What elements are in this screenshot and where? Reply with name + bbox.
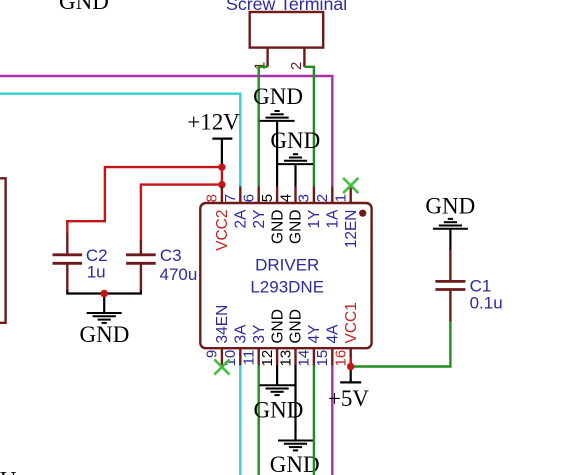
junction dot B (+12V / C3 branch) xyxy=(218,181,225,188)
label 470u xyxy=(160,265,198,284)
power +12V label xyxy=(187,109,240,134)
pin name 12EN (pin 1) xyxy=(343,210,360,249)
svg-text:GND: GND xyxy=(270,452,320,475)
pin name GND (pin 5) xyxy=(269,210,286,244)
pin name 1A (pin 2) xyxy=(325,209,342,229)
junction dot C (ground bus) xyxy=(100,290,108,298)
capacitor C3 top lead xyxy=(140,240,142,254)
wire cyan from pin 10 xyxy=(239,365,241,475)
capacitor C1 bottom lead xyxy=(449,291,451,322)
svg-text:12EN: 12EN xyxy=(343,210,360,249)
pin number 15 xyxy=(314,350,331,367)
pin name 34EN (pin 9) xyxy=(214,305,231,344)
connector J1 (partially off-screen left) xyxy=(0,178,6,322)
pin number 5 xyxy=(259,194,276,202)
pin name 3A (pin 10) xyxy=(233,324,250,344)
svg-text:2A: 2A xyxy=(233,209,250,229)
pin 13 of U1 xyxy=(294,347,296,366)
svg-text:7: 7 xyxy=(222,194,239,202)
svg-text:3A: 3A xyxy=(233,324,250,344)
capacitor C2 plates xyxy=(53,255,83,263)
svg-text:1Y: 1Y xyxy=(306,210,323,229)
power +5V stub xyxy=(350,367,352,383)
wire red pin 16 to junction xyxy=(350,358,352,367)
wire green from pin 11 xyxy=(258,365,260,475)
pin number 3 xyxy=(296,194,313,202)
svg-text:12: 12 xyxy=(259,350,276,367)
pin name 1Y (pin 3) xyxy=(306,210,323,229)
svg-text:2: 2 xyxy=(314,194,331,202)
pin number 12 xyxy=(259,350,276,367)
label L293DNE xyxy=(250,277,324,296)
pin number 11 xyxy=(241,350,258,366)
pin number 16 xyxy=(333,350,350,367)
svg-text:16: 16 xyxy=(333,350,350,367)
ground symbol (pin 4) xyxy=(278,154,313,164)
wire GND to pin 4 xyxy=(294,165,296,187)
junction dot A (+12V / C2 branch) xyxy=(218,163,225,170)
svg-text:4: 4 xyxy=(277,194,294,202)
ground symbol (pin 12) xyxy=(260,385,295,395)
pin 5 of U1 xyxy=(276,186,278,204)
svg-text:1u: 1u xyxy=(87,263,106,282)
capacitor C3 bottom lead xyxy=(140,265,142,292)
pin 3 of U1 xyxy=(313,186,315,204)
label C2 xyxy=(86,246,108,265)
svg-text:C3: C3 xyxy=(160,246,182,265)
pin 14 of U1 xyxy=(313,347,315,366)
svg-text:2: 2 xyxy=(288,62,305,70)
wire black GND to C1 xyxy=(449,230,451,251)
power +12V symbol bar xyxy=(212,138,232,140)
pin name GND (pin 13) xyxy=(288,309,305,343)
svg-text:34EN: 34EN xyxy=(214,305,231,344)
wire black C2-C3 ground bus xyxy=(67,291,141,294)
svg-text:0.1u: 0.1u xyxy=(470,293,503,312)
pin 2 of U1 xyxy=(331,186,333,204)
op-amp driver IC U1 body xyxy=(200,203,371,348)
pin 1 of screw terminal xyxy=(266,48,268,67)
ground GND label (pin 5) xyxy=(253,84,303,109)
wire cyan net to pin 7 (2A) xyxy=(0,94,240,187)
pin 10 of U1 xyxy=(239,347,241,366)
wire black pin 13 to ground xyxy=(294,365,296,440)
pin name 3Y (pin 11) xyxy=(251,325,268,344)
svg-text:9: 9 xyxy=(204,350,221,358)
ground symbol (left) xyxy=(87,313,122,323)
svg-text:11: 11 xyxy=(241,350,258,366)
svg-text:VCC2: VCC2 xyxy=(214,210,231,251)
ground GND label (left) xyxy=(79,322,129,347)
svg-text:4Y: 4Y xyxy=(306,325,323,344)
svg-text:3: 3 xyxy=(296,194,313,202)
pin number 1 xyxy=(333,194,350,202)
wire red branch to C2 xyxy=(67,167,222,234)
pin name VCC1 (pin 16) xyxy=(343,302,360,343)
no-connect X on pin 1 xyxy=(343,178,358,193)
ground GND label (right) xyxy=(425,194,475,219)
svg-text:GND: GND xyxy=(253,84,303,109)
label C1 xyxy=(470,276,492,295)
pin 11 of U1 xyxy=(258,347,260,366)
screw terminal X1 label xyxy=(226,0,347,14)
svg-text:15: 15 xyxy=(314,350,331,367)
pin name GND (pin 12) xyxy=(269,309,286,343)
pin 2 of screw terminal xyxy=(303,48,305,67)
label U (cut off at bottom edge) xyxy=(0,467,17,475)
svg-text:GND: GND xyxy=(425,194,475,219)
pin name VCC2 (pin 8) xyxy=(214,210,231,251)
wire magenta net to pin 2 (1A) xyxy=(0,76,332,187)
pin number 10 xyxy=(222,350,239,367)
svg-text:14: 14 xyxy=(296,350,313,367)
wire green screw pin2 to IC pin 3 xyxy=(304,67,314,187)
svg-text:2Y: 2Y xyxy=(251,210,268,229)
pin name 2A (pin 7) xyxy=(233,209,250,229)
power +5V symbol bar xyxy=(340,381,361,383)
pin name 4A (pin 15) xyxy=(325,324,342,344)
wire +12V stub xyxy=(221,139,223,168)
pin number 2 (screw terminal) xyxy=(288,62,305,70)
capacitor C2 bottom lead xyxy=(66,265,68,292)
pin number 14 xyxy=(296,350,313,367)
svg-text:GND: GND xyxy=(288,210,305,244)
svg-text:6: 6 xyxy=(241,194,258,202)
wire green pin16 to C1 xyxy=(351,320,451,366)
svg-text:4A: 4A xyxy=(325,324,342,344)
svg-text:3Y: 3Y xyxy=(251,325,268,344)
label C3 xyxy=(160,246,182,265)
pin 8 of U1 xyxy=(221,186,223,204)
pin number 1 (screw terminal) xyxy=(251,62,268,70)
svg-text:1: 1 xyxy=(333,194,350,202)
svg-text:8: 8 xyxy=(204,194,221,202)
capacitor C3 plates xyxy=(126,255,156,263)
wire black to left ground xyxy=(103,294,105,314)
ground symbol (right) xyxy=(433,219,468,229)
ground GND label (pin 13) xyxy=(270,452,320,475)
pin 9 of U1 xyxy=(221,347,223,366)
pin name 4Y (pin 14) xyxy=(306,325,323,344)
wire magenta from pin 15 xyxy=(331,365,333,475)
capacitor C1 plates xyxy=(435,281,465,289)
junction dot D (pin 16 / +5V) xyxy=(347,363,354,370)
svg-text:GND: GND xyxy=(270,128,320,153)
pin number 4 xyxy=(277,194,294,202)
pin 1 of U1 xyxy=(350,186,352,204)
wire GND to pin 5 xyxy=(276,122,278,187)
capacitor C2 top lead xyxy=(66,233,68,254)
pin name 2Y (pin 6) xyxy=(251,210,268,229)
svg-text:VCC1: VCC1 xyxy=(343,302,360,343)
IC origin dot xyxy=(359,210,366,217)
ground GND label (pin 12) xyxy=(253,397,303,422)
pin 4 of U1 xyxy=(294,186,296,204)
ground GND (top-left, cut off) xyxy=(59,0,109,14)
ground symbol (pin 5) xyxy=(260,111,295,121)
wire green screw pin1 to IC pin 6 xyxy=(259,67,268,187)
pin number 2 xyxy=(314,194,331,202)
pin 16 of U1 xyxy=(350,347,352,366)
svg-text:+12V: +12V xyxy=(187,109,240,134)
power +5V label xyxy=(328,386,369,411)
wire green from pin 14 xyxy=(313,365,315,475)
pin number 9 xyxy=(204,350,221,358)
svg-text:L293DNE: L293DNE xyxy=(250,277,324,296)
pin 15 of U1 xyxy=(331,347,333,366)
svg-text:GND: GND xyxy=(59,0,109,14)
svg-text:GND: GND xyxy=(269,210,286,244)
label 0.1u xyxy=(470,293,503,312)
svg-text:13: 13 xyxy=(277,350,294,367)
ground GND label (pin 4) xyxy=(270,128,320,153)
svg-text:470u: 470u xyxy=(160,265,198,284)
pin 12 of U1 xyxy=(276,347,278,366)
wire black pin 12 to ground xyxy=(276,365,278,385)
label 1u xyxy=(87,263,106,282)
svg-text:5: 5 xyxy=(259,194,276,202)
svg-text:GND: GND xyxy=(269,309,286,343)
pin 7 of U1 xyxy=(239,186,241,204)
ground symbol (pin 13) xyxy=(278,441,313,451)
screw terminal X1 body xyxy=(250,12,324,48)
pin number 7 xyxy=(222,194,239,202)
svg-text:U: U xyxy=(0,467,17,475)
pin number 8 xyxy=(204,194,221,202)
pin number 6 xyxy=(241,194,258,202)
pin 6 of U1 xyxy=(258,186,260,204)
svg-text:GND: GND xyxy=(79,322,129,347)
no-connect X on pin 9 xyxy=(214,359,229,374)
capacitor C1 top lead xyxy=(449,250,451,281)
svg-text:1A: 1A xyxy=(325,209,342,229)
wire red +12V vertical to pin 8 xyxy=(221,166,223,189)
pin number 13 xyxy=(277,350,294,367)
pin name GND (pin 4) xyxy=(288,210,305,244)
wire red branch to C3 xyxy=(141,185,222,241)
label DRIVER xyxy=(255,255,319,274)
svg-text:GND: GND xyxy=(288,309,305,343)
svg-text:+5V: +5V xyxy=(328,386,369,411)
svg-text:DRIVER: DRIVER xyxy=(255,255,319,274)
